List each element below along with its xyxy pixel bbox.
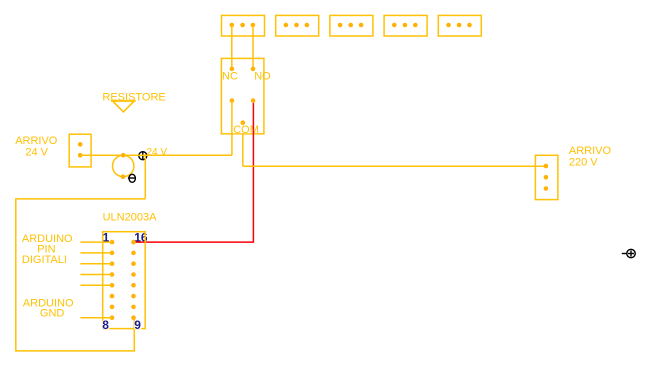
svg-text:NC: NC (222, 70, 238, 82)
IC pins right column (131, 240, 136, 320)
relay pin COM (241, 120, 246, 125)
resistor symbol (down triangle) (111, 101, 136, 112)
wire arduino pin 1 (80, 241, 112, 243)
motor terminal + (top) (121, 153, 126, 158)
wire arduino pin 3 (80, 263, 112, 265)
wire relay COM down (242, 123, 244, 167)
wire relay coil-left to 24V rail (231, 101, 233, 156)
connector J3 (330, 15, 373, 36)
wire arduino pin 5 (80, 284, 112, 286)
wire arduino pin 2 (80, 252, 112, 254)
pin number 16 (134, 231, 148, 245)
connector J4 (384, 15, 427, 36)
svg-text:ARRIVO: ARRIVO (569, 145, 612, 157)
motor terminal - (bottom) (121, 174, 126, 179)
wire (red) relay coil-right to ULN2003A pin 16 (135, 103, 253, 242)
svg-text:GND: GND (40, 308, 65, 320)
svg-text:ARRIVO: ARRIVO (15, 135, 58, 147)
svg-text:COM: COM (233, 124, 259, 136)
relay pin (coil right) (251, 98, 256, 103)
crosshair marker (622, 249, 635, 257)
svg-text:220 V: 220 V (569, 156, 598, 168)
label COM (233, 124, 259, 136)
svg-text:DIGITALI: DIGITALI (22, 254, 67, 266)
wire J1 pin3 to relay NO (252, 25, 254, 69)
polarity marker plus (139, 151, 147, 160)
relay K1 body (221, 58, 264, 133)
relay pin (coil left) (230, 98, 235, 103)
pin number 1 (103, 231, 110, 245)
IC U1 ULN2003A body (103, 232, 146, 329)
connector J2 (276, 15, 319, 36)
pin number 8 (102, 318, 109, 332)
wire J1 pin1 to relay NC (231, 25, 233, 69)
svg-text:24 V: 24 V (147, 147, 168, 158)
svg-text:8: 8 (102, 318, 109, 332)
relay pin NC (230, 67, 235, 72)
motor M1 (113, 155, 134, 176)
wire arduino pin 4 (80, 274, 112, 276)
connector J5 (438, 15, 481, 36)
wire loop to ULN2003A pin 9 (16, 199, 146, 351)
pin number 9 (134, 318, 141, 332)
wire COM to ARRIVO 220V (243, 165, 546, 167)
IC pins left column (110, 240, 115, 320)
connector ARRIVO 24V (69, 134, 91, 167)
svg-text:NO: NO (254, 70, 271, 82)
wire junction down from 24V rail (144, 155, 146, 199)
connector J1 (222, 15, 265, 36)
wire arduino gnd (80, 317, 112, 319)
polarity marker minus (128, 174, 136, 182)
connector ARRIVO 220V (535, 155, 558, 199)
wire 24V rail (80, 154, 232, 156)
svg-text:9: 9 (134, 318, 141, 332)
relay pin NO (251, 67, 256, 72)
svg-text:24 V: 24 V (25, 146, 48, 158)
svg-text:ULN2003A: ULN2003A (103, 211, 157, 223)
